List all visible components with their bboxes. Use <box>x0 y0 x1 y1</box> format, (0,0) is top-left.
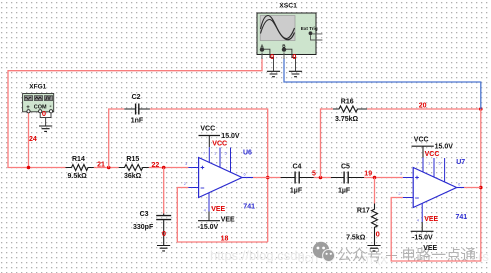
svg-text:19: 19 <box>364 170 372 177</box>
wire: scope B blue to net 20 <box>284 59 481 110</box>
svg-text:18: 18 <box>221 236 229 243</box>
XSC1 screen <box>260 16 295 41</box>
svg-text:Ext Trig: Ext Trig <box>301 26 318 31</box>
capacitor C3 <box>156 214 171 246</box>
svg-text:C2: C2 <box>132 94 141 101</box>
XSC1 A terminal <box>260 47 264 51</box>
capacitor C4 <box>281 172 314 184</box>
U7 output pin <box>457 187 464 189</box>
U6 input pins <box>188 168 198 188</box>
resistor R15 <box>119 165 149 171</box>
svg-text:1µF: 1µF <box>338 188 351 195</box>
junction net 22 <box>162 166 166 170</box>
XSC1 B- ground stem <box>286 49 296 71</box>
wire: R16 right to net 20 vertical <box>367 108 481 110</box>
wire: U7 feedback loop <box>391 188 481 262</box>
U7 bottom pin 4 <box>421 203 423 222</box>
wire: net 22 down to C3 <box>163 168 165 214</box>
svg-text:0: 0 <box>376 230 380 239</box>
op-amp U6 <box>184 126 255 231</box>
U6 bottom pin 4 <box>208 193 210 212</box>
XSC1 A- ground stem <box>264 49 274 71</box>
svg-text:-15.0V: -15.0V <box>198 224 219 231</box>
ground at scope A <box>267 71 280 76</box>
resistor R17 (vertical) <box>372 204 378 246</box>
svg-text:VEE: VEE <box>211 206 225 213</box>
svg-text:330pF: 330pF <box>133 224 154 231</box>
U7 triangle <box>413 168 456 208</box>
junction net 21 <box>107 166 111 170</box>
XFG1 terminals <box>27 110 30 113</box>
svg-text:0: 0 <box>292 52 296 61</box>
XSC1 waveform B <box>261 20 295 40</box>
wire: U6 output to C4 <box>253 177 281 179</box>
svg-text:VCC: VCC <box>414 136 429 143</box>
XFG1 sine button <box>24 96 32 101</box>
wire: C5 to U7 + input (net 19) <box>364 177 403 179</box>
ground at XFG1 <box>39 126 52 131</box>
svg-text:R17: R17 <box>357 208 370 215</box>
U6 VEE symbol <box>198 220 220 222</box>
svg-text:-15.0V: -15.0V <box>412 235 433 242</box>
junction net 24 <box>27 166 31 170</box>
svg-text:U6: U6 <box>243 149 252 156</box>
svg-text:1nF: 1nF <box>131 117 144 124</box>
U6 +/- marks <box>201 166 205 170</box>
svg-text:15.0V: 15.0V <box>435 144 454 151</box>
svg-text:VCC: VCC <box>425 151 440 158</box>
capacitor C5 <box>331 172 364 184</box>
watermark logo <box>313 242 335 262</box>
svg-text:22: 22 <box>152 162 160 169</box>
op-amp U7 <box>398 136 467 252</box>
ground at scope B <box>289 71 302 76</box>
U6 top pins 7,1,5 <box>209 147 230 172</box>
XFG1 square button <box>44 96 52 101</box>
svg-text:15.0V: 15.0V <box>221 133 240 140</box>
svg-text:-: - <box>50 104 52 110</box>
U6 output pin <box>242 177 253 179</box>
svg-text:C5: C5 <box>341 163 350 170</box>
XSC1 ext trig terminal <box>309 31 313 35</box>
U6 triangle <box>199 158 242 198</box>
U7 +/- marks <box>415 176 419 180</box>
wire: R14 to R15 (net 21) <box>94 167 119 169</box>
svg-text:1µF: 1µF <box>290 188 303 195</box>
wire: U6 feedback loop net 18 <box>177 188 267 243</box>
svg-text:7.5kΩ: 7.5kΩ <box>346 234 366 241</box>
XSC1 waveform A <box>261 16 295 39</box>
oscilloscope XSC1 <box>257 3 322 77</box>
junction net 19 <box>373 176 377 180</box>
U7 top pins 7,1,5 <box>423 158 445 183</box>
svg-text:C4: C4 <box>293 163 302 170</box>
svg-text:(s: (s <box>478 249 489 264</box>
junction U7 output <box>479 186 483 190</box>
ground below R17 <box>367 246 380 251</box>
wire: XFG1 + output down to net 24 <box>28 113 30 168</box>
svg-text:9.5kΩ: 9.5kΩ <box>68 173 88 180</box>
svg-text:741: 741 <box>456 214 468 221</box>
svg-text:https://blog.csdn: https://blog.csdn <box>210 248 305 263</box>
XFG1 COM and - wires to ground <box>40 113 51 126</box>
XSC1 B terminal <box>282 47 286 51</box>
svg-text:VEE: VEE <box>424 216 438 223</box>
XFG1 triangle button <box>34 96 42 101</box>
wire: net 20 vertical down to U7 output <box>480 109 482 188</box>
svg-text:XFG1: XFG1 <box>29 84 46 91</box>
wire: net 5 up to R16 <box>321 109 334 178</box>
svg-text:VEE: VEE <box>423 245 437 252</box>
capacitor C2 <box>124 104 150 115</box>
wire: U7 output <box>464 187 481 189</box>
svg-text:VCC: VCC <box>212 140 227 147</box>
junction net 5 <box>319 176 323 180</box>
svg-text:0: 0 <box>42 109 46 118</box>
wire: R15 to U6 + input (net 22) <box>149 167 189 169</box>
svg-text:R16: R16 <box>341 98 354 105</box>
svg-text:U7: U7 <box>456 159 465 166</box>
resistor R16 <box>333 106 367 112</box>
resistor R14 <box>66 165 94 171</box>
ground below C3 <box>157 246 170 251</box>
svg-text:3.75kΩ: 3.75kΩ <box>335 116 359 123</box>
svg-text:VEE: VEE <box>221 217 235 224</box>
svg-text:36kΩ: 36kΩ <box>124 173 142 180</box>
wire: scope A to left rail and bottom row (net 24) <box>8 59 262 168</box>
junction U6 output <box>266 176 270 180</box>
svg-text:24: 24 <box>29 136 37 143</box>
wire: net 19 down to R17 <box>374 178 376 204</box>
U7 input pins <box>403 178 413 198</box>
svg-text:5: 5 <box>312 170 316 177</box>
svg-text:C3: C3 <box>140 211 149 218</box>
XSC1 terminal stubs <box>262 53 284 60</box>
U7 VEE symbol <box>411 230 434 232</box>
wire: C2 right to U6 output vertical <box>150 109 268 242</box>
wire: C4 to C5 (net 5) <box>314 177 331 179</box>
wire: net 21 up to C2 <box>109 109 125 168</box>
svg-text:21: 21 <box>97 161 105 168</box>
svg-text:R14: R14 <box>72 156 85 163</box>
svg-text:0: 0 <box>162 229 166 238</box>
svg-text:R15: R15 <box>126 156 139 163</box>
svg-text:VCC: VCC <box>200 126 215 133</box>
svg-text:0: 0 <box>270 52 274 61</box>
svg-text:XSC1: XSC1 <box>279 3 297 10</box>
svg-text:741: 741 <box>243 204 255 211</box>
svg-text:20: 20 <box>419 103 427 110</box>
function generator XFG1 <box>23 84 54 132</box>
junction net 20 top <box>479 107 483 111</box>
